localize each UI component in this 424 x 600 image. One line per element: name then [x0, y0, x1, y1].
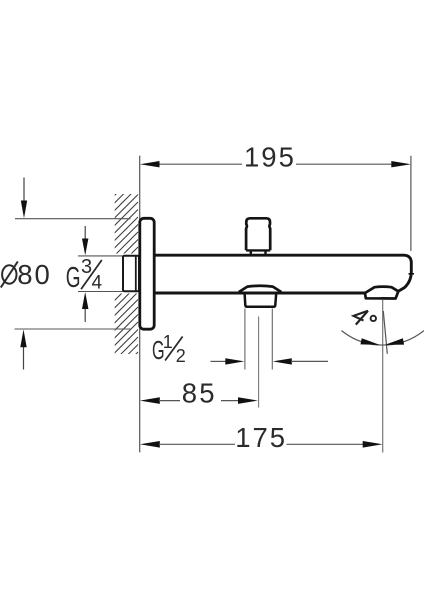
dimension o80 upper leader	[21, 178, 27, 219]
dimension G3/4 upper leader	[82, 226, 88, 255]
wall flange	[140, 218, 154, 329]
hand shower pipe	[245, 309, 272, 370]
spout body	[154, 255, 411, 291]
dimension G3/4 lower leader	[82, 292, 88, 322]
svg-text:2: 2	[176, 346, 186, 366]
extension lines G3/4 pipe	[78, 255, 123, 257]
spout underside	[154, 292, 366, 295]
label o80	[1, 259, 52, 290]
diverter knob	[246, 218, 270, 255]
extension line spout end	[410, 156, 412, 251]
svg-text:85: 85	[182, 377, 217, 408]
svg-text:195: 195	[244, 141, 296, 172]
angle arrow right	[385, 338, 404, 345]
G3/4 supply pipe	[123, 256, 139, 292]
svg-text:G: G	[66, 262, 81, 294]
tilted 4 degree line	[383, 311, 387, 354]
hand shower collar	[245, 294, 277, 307]
svg-text:80: 80	[17, 259, 52, 290]
wall hatch	[108, 172, 138, 382]
hand shower flare	[239, 286, 281, 292]
pipe centreline	[258, 317, 260, 408]
label 4 degrees	[354, 311, 376, 325]
angle arrow left	[361, 338, 380, 345]
svg-text:4: 4	[92, 272, 103, 293]
spout outlet lip	[365, 287, 398, 299]
dimension 175	[140, 422, 383, 453]
svg-text:1: 1	[163, 332, 173, 352]
extension line flange bottom	[15, 328, 132, 330]
parting tick on spout end	[409, 273, 415, 275]
angle arc	[342, 331, 424, 345]
label G1/2	[152, 332, 186, 366]
dimension 195	[140, 141, 411, 172]
wall face reference line	[139, 156, 141, 453]
dimension o80 lower leader	[20, 330, 26, 370]
dimension 85	[140, 377, 258, 408]
outlet axis line	[382, 300, 384, 453]
label G3/4	[66, 256, 103, 294]
svg-text:175: 175	[235, 422, 287, 453]
dimension G1/2	[211, 358, 329, 364]
extension line flange top	[15, 218, 131, 220]
knob neck	[251, 251, 266, 255]
